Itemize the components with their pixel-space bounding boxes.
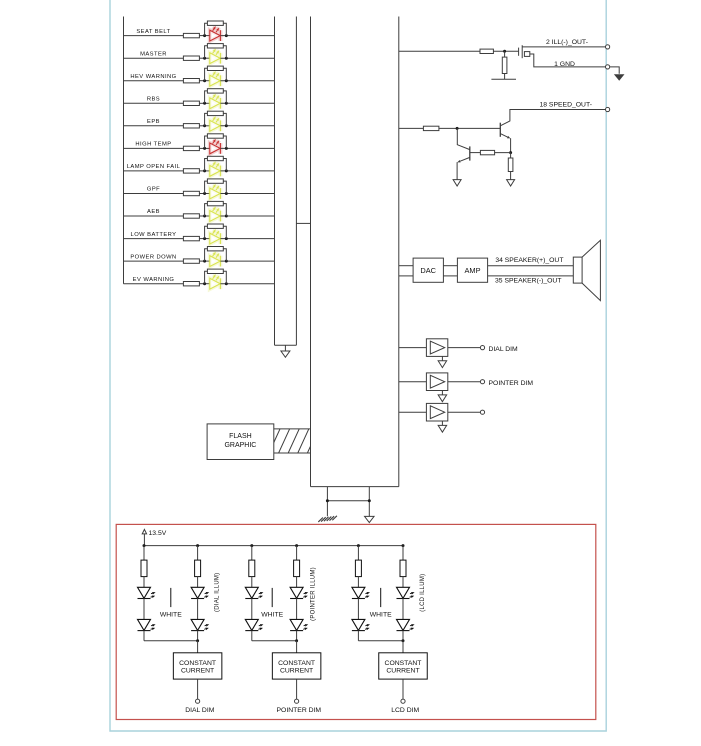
svg-text:WHITE: WHITE [261,611,283,618]
svg-text:(DIAL ILLUM): (DIAL ILLUM) [214,573,220,612]
svg-text:18 SPEED_OUT-: 18 SPEED_OUT- [539,102,592,109]
svg-text:CONSTANT: CONSTANT [385,660,422,667]
svg-text:POINTER DIM: POINTER DIM [489,380,534,387]
svg-text:AMP: AMP [464,266,480,275]
svg-text:DIAL DIM: DIAL DIM [489,346,519,353]
svg-text:(LCD ILLUM): (LCD ILLUM) [420,574,426,612]
svg-text:2 ILL(-)_OUT-: 2 ILL(-)_OUT- [546,39,588,46]
svg-text:FLASH: FLASH [229,433,252,440]
svg-text:WHITE: WHITE [160,611,182,618]
svg-text:SEAT BELT: SEAT BELT [136,29,170,35]
svg-text:CURRENT: CURRENT [386,668,419,675]
svg-text:1 GND: 1 GND [554,61,575,68]
svg-text:HIGH TEMP: HIGH TEMP [135,142,171,148]
svg-text:GPF: GPF [147,187,160,193]
svg-text:DIAL DIM: DIAL DIM [185,707,215,714]
svg-text:GRAPHIC: GRAPHIC [224,442,256,449]
svg-text:LOW BATTERY: LOW BATTERY [131,232,177,238]
svg-text:LAMP OPEN FAIL: LAMP OPEN FAIL [127,164,181,170]
svg-text:AEB: AEB [147,209,160,215]
svg-text:CURRENT: CURRENT [181,668,214,675]
svg-text:EPB: EPB [147,119,160,125]
svg-text:35 SPEAKER(-)_OUT: 35 SPEAKER(-)_OUT [495,278,561,285]
svg-text:WHITE: WHITE [370,611,392,618]
svg-text:RBS: RBS [147,97,160,103]
svg-text:13.5V: 13.5V [149,530,167,537]
svg-text:(POINTER ILLUM): (POINTER ILLUM) [311,567,317,621]
svg-text:DAC: DAC [420,266,436,275]
svg-text:EV WARNING: EV WARNING [133,277,175,283]
svg-text:CURRENT: CURRENT [280,668,313,675]
svg-text:MASTER: MASTER [140,51,167,57]
svg-text:34 SPEAKER(+)_OUT: 34 SPEAKER(+)_OUT [495,257,563,264]
svg-text:LCD DIM: LCD DIM [391,707,419,714]
svg-text:HEV WARNING: HEV WARNING [130,74,176,80]
svg-text:POINTER DIM: POINTER DIM [277,707,322,714]
svg-text:CONSTANT: CONSTANT [179,660,216,667]
svg-text:POWER DOWN: POWER DOWN [130,254,176,260]
svg-text:CONSTANT: CONSTANT [278,660,315,667]
